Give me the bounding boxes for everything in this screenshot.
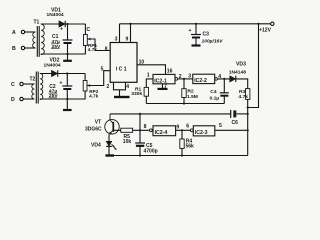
wire RP2 wiper to IC1 pin 5 [92, 71, 111, 86]
svg-text:4.7k: 4.7k [89, 93, 99, 98]
diode VD1 1N4004 [47, 8, 66, 28]
wire node C down to RP1 [84, 24, 86, 35]
svg-text:C4: C4 [210, 89, 217, 95]
svg-text:1N4148: 1N4148 [229, 70, 246, 76]
wire junction up to collector line [139, 114, 141, 130]
resistor R2 1.5M [182, 79, 198, 104]
junction pin5 node [247, 129, 249, 131]
svg-text:B: B [12, 46, 16, 52]
ground (IC2-1 pin7) [158, 88, 168, 90]
wire IC2-4 to IC2-3 [176, 124, 191, 130]
svg-text:100µ/16V: 100µ/16V [202, 39, 224, 45]
svg-text:9: 9 [126, 36, 129, 42]
op-amp IC1 [110, 43, 137, 83]
ground (IC1) [114, 90, 130, 97]
capacitor C3 100u/16V [189, 24, 224, 45]
wire C to T2 primary [23, 83, 34, 85]
diode VD3 1N4148 [229, 62, 246, 83]
terminal D [11, 97, 23, 103]
svg-text:10: 10 [139, 60, 145, 66]
svg-text:T2: T2 [30, 77, 36, 83]
wire R5 to IC2-4 input [133, 129, 150, 131]
transformer T2 [30, 72, 43, 104]
svg-text:VT: VT [95, 120, 101, 126]
capacitor C1 47u 25V [51, 24, 73, 54]
wire VD2 to RP2 [58, 73, 85, 75]
junction C1 top [66, 23, 68, 25]
junction C6 right [247, 113, 249, 115]
svg-text:0.1µ: 0.1µ [210, 96, 220, 102]
svg-text:IC2-4: IC2-4 [155, 130, 168, 136]
junction rail drop [257, 23, 259, 25]
svg-text:8: 8 [105, 46, 108, 52]
svg-text:4.7k: 4.7k [239, 94, 249, 100]
svg-text:8: 8 [144, 124, 147, 130]
potentiometer RP2 4.7k [83, 74, 99, 99]
svg-text:1.5M: 1.5M [187, 94, 198, 100]
junction R2 top [183, 78, 185, 80]
capacitor C6 [231, 110, 248, 126]
svg-text:IC2-2: IC2-2 [194, 78, 207, 84]
svg-text:+: + [60, 81, 63, 87]
ground (C1 rail) [63, 54, 72, 61]
transistor VT 3DG6C [85, 114, 119, 135]
middle ground rail [146, 103, 224, 105]
svg-text:R2: R2 [187, 88, 194, 94]
ground (C3) [192, 44, 201, 46]
svg-text:4.7k: 4.7k [88, 47, 98, 52]
svg-text:9: 9 [176, 124, 179, 130]
terminal B [12, 46, 25, 52]
resistor R1 330k [131, 86, 148, 103]
junction R2 bottom [183, 102, 185, 104]
+12V rail [120, 23, 271, 25]
svg-text:4: 4 [218, 74, 221, 80]
potentiometer RP1 4.7k [84, 35, 98, 53]
bottom rail [109, 155, 248, 157]
resistor R5 10k [121, 128, 133, 145]
pin 3 [115, 24, 120, 43]
svg-text:T1: T1 [34, 20, 40, 26]
svg-text:1N4004: 1N4004 [47, 12, 64, 18]
svg-text:C6: C6 [232, 120, 239, 126]
svg-text:5: 5 [219, 123, 222, 129]
svg-text:1N4004: 1N4004 [44, 62, 61, 68]
svg-text:D: D [11, 97, 15, 103]
junction C2 top [66, 72, 68, 74]
inverter IC2-4 [144, 124, 176, 136]
junction R3 bottom / rail drop [247, 106, 249, 108]
svg-text:56k: 56k [186, 144, 195, 150]
pin 7 ground stub [163, 84, 168, 90]
svg-text:1: 1 [147, 73, 150, 79]
wire pin 2 to pin 3 [175, 74, 193, 81]
svg-text:IC2-3: IC2-3 [195, 130, 208, 136]
wire VD3 to R3 node [236, 79, 248, 89]
svg-text:16: 16 [167, 68, 173, 74]
svg-text:10k: 10k [123, 139, 132, 145]
svg-text:IC1: IC1 [116, 67, 128, 73]
terminal C [11, 82, 23, 88]
inverter IC2-1 [153, 74, 175, 84]
diode VD2 1N4004 [44, 58, 61, 77]
pin 9 [126, 23, 132, 43]
svg-text:330k: 330k [131, 91, 142, 97]
junction C3 top [195, 23, 197, 25]
wire RP1 wiper to IC1 pin 8 [92, 39, 111, 51]
wire T2 secondary bottom rail [40, 91, 85, 100]
ground (C2 rail) [63, 99, 72, 110]
svg-text:4: 4 [126, 84, 129, 90]
junction C4 top [223, 78, 225, 80]
pin 1 wire to R1 [146, 73, 153, 88]
wire A to T1 primary [25, 31, 36, 33]
base wire to R5 [114, 129, 121, 131]
svg-text:VD4: VD4 [91, 142, 101, 148]
junction C5 bottom [139, 154, 141, 156]
svg-text:VD3: VD3 [236, 62, 246, 68]
wire VD1 to node C [65, 23, 85, 25]
svg-text:3: 3 [188, 74, 191, 80]
resistor R3 4.7k [239, 89, 250, 156]
capacitor C2 47u 25V [49, 74, 73, 100]
junction R5/C5/collector [139, 129, 141, 131]
svg-text:4700p: 4700p [144, 148, 158, 154]
wire T1 secondary top to VD1 [41, 23, 59, 25]
wire D to T2 primary [23, 98, 34, 100]
+12V terminal [259, 22, 274, 33]
junction C2 bottom [66, 98, 68, 100]
pin 10 wire to IC2-1 pin 16 [137, 60, 173, 75]
pins 2 and 4 to ground [107, 82, 130, 90]
+12V drop to R3 bottom node [248, 24, 259, 108]
svg-text:+: + [60, 27, 63, 33]
wire pin 4 to VD3 [215, 74, 234, 80]
svg-text:C3: C3 [203, 32, 210, 38]
wire IC2-3 pin 5 to right node [215, 123, 248, 130]
inverter IC2-2 [193, 74, 215, 84]
inverter IC2-3 [186, 123, 215, 136]
resistor R4 56k [180, 130, 194, 155]
svg-text:2: 2 [107, 84, 110, 90]
junction R4 bottom [181, 154, 183, 156]
svg-text:6: 6 [186, 123, 189, 129]
svg-text:3DG6C: 3DG6C [85, 127, 102, 133]
collector wire to C6 [110, 113, 231, 115]
transformer T1 [33, 20, 45, 57]
junction collector line [139, 113, 141, 115]
capacitor C4 .01u [210, 79, 229, 104]
svg-text:+: + [189, 28, 192, 34]
svg-text:2: 2 [179, 74, 182, 80]
svg-text:3: 3 [115, 36, 118, 42]
junction R4 top [181, 129, 183, 131]
junction C1 bottom [66, 53, 68, 55]
wire T2 secondary top to VD2 [40, 73, 51, 75]
svg-text:C: C [11, 82, 15, 88]
svg-text:+12V: +12V [259, 28, 272, 34]
svg-text:5: 5 [101, 66, 104, 72]
terminal A [12, 30, 25, 36]
wire B to T1 primary [25, 47, 36, 49]
capacitor C5 4700p [135, 130, 157, 155]
svg-text:A: A [12, 30, 16, 36]
wire T1 secondary bottom rail [41, 46, 85, 55]
svg-text:C: C [87, 27, 91, 33]
LED VD4 [91, 134, 117, 155]
